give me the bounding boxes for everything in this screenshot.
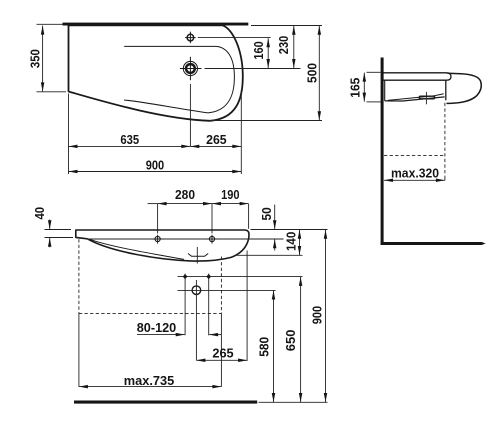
bolt dots axis (front) xyxy=(178,276,303,278)
svg-text:500: 500 xyxy=(304,63,319,83)
dimension 580 (front) xyxy=(257,291,274,403)
inner lip line (front) xyxy=(88,239,184,260)
trap zone right extension (front) xyxy=(220,313,222,386)
svg-text:165: 165 xyxy=(348,78,363,98)
svg-text:350: 350 xyxy=(27,49,42,68)
dashed trap zone left (front) xyxy=(78,239,80,313)
dimension 265 (plan) xyxy=(190,132,241,147)
drain trap mark (front) xyxy=(188,247,208,264)
svg-text:max.320: max.320 xyxy=(391,165,439,180)
svg-text:230: 230 xyxy=(276,36,291,54)
dimension 230 (plan right) xyxy=(276,26,294,68)
svg-text:635: 635 xyxy=(120,132,139,147)
bolt dot left (front) xyxy=(183,274,188,336)
basin inner outline (plan) xyxy=(124,46,234,113)
rim top extension right (front) xyxy=(251,229,328,231)
bolt dot right (front) xyxy=(206,274,211,336)
svg-text:265: 265 xyxy=(206,132,227,147)
bowl interior line (side) xyxy=(388,94,444,101)
svg-text:265: 265 xyxy=(212,346,233,361)
basin outer outline (plan) xyxy=(69,25,243,120)
dashed depth line (side) xyxy=(444,103,446,177)
outer bulge (side) xyxy=(447,73,482,103)
drain axis (side) xyxy=(425,92,427,104)
svg-text:160: 160 xyxy=(251,41,266,59)
svg-text:80-120: 80-120 xyxy=(137,320,177,335)
dimension 160 (plan right) xyxy=(251,38,268,68)
dashed horizontal (side) xyxy=(384,155,445,157)
floor bar (front) xyxy=(74,401,257,404)
fixing holes axis (front) xyxy=(86,238,284,240)
dimension 265 (front) xyxy=(196,251,247,361)
svg-text:650: 650 xyxy=(283,330,298,352)
drain slot (side) xyxy=(419,96,435,99)
bowl underside (side) xyxy=(385,97,445,101)
dimension max.320 (side) xyxy=(384,165,445,180)
svg-text:280: 280 xyxy=(175,187,195,202)
bowl front edge (side) xyxy=(445,80,447,100)
extension lines below plan xyxy=(68,94,70,175)
wall bar (side) xyxy=(381,58,384,246)
hole extension lines up (front) xyxy=(157,204,159,234)
top reference extension (plan right) xyxy=(251,25,322,27)
dashed trap zone bottom (front) xyxy=(79,312,222,314)
svg-text:900: 900 xyxy=(146,158,164,173)
dimension 140 (front right) xyxy=(283,230,299,255)
drain pipe circle (front) xyxy=(178,280,276,360)
tap hole (plan) xyxy=(180,57,301,147)
floor bar (side) xyxy=(381,242,486,245)
rim slab (side) xyxy=(384,73,452,80)
floor extension line (front) xyxy=(259,401,328,403)
svg-text:40: 40 xyxy=(32,207,47,220)
bowl back edge (side) xyxy=(384,80,386,101)
dimension 80-120 (front) xyxy=(137,320,222,335)
trap zone left extension (front) xyxy=(78,313,80,386)
svg-text:max.735: max.735 xyxy=(124,373,174,388)
svg-text:580: 580 xyxy=(257,337,272,357)
dimension 280 (front) xyxy=(148,187,212,204)
svg-text:900: 900 xyxy=(310,306,325,324)
overflow hole (plan) xyxy=(185,32,271,44)
fixing hole left (front) xyxy=(152,235,164,244)
dimension 500 (plan right) xyxy=(304,26,319,120)
bottom reference extension for 500 xyxy=(209,120,322,122)
dimension 190 (front) xyxy=(212,187,249,204)
dimension 635 (plan) xyxy=(69,132,191,147)
dimension 650 (front) xyxy=(283,277,301,402)
dimension 50 (front right) xyxy=(259,205,275,251)
wall bar (plan) xyxy=(63,23,249,26)
svg-text:50: 50 xyxy=(259,207,274,220)
bottom edge extension (front right) xyxy=(236,254,303,256)
fixing hole right (front) xyxy=(206,235,218,244)
dashed trap zone right (front) xyxy=(220,257,222,314)
dimension 900 (front) xyxy=(310,230,326,402)
svg-text:140: 140 xyxy=(283,232,298,251)
basin outline (front) xyxy=(76,230,249,261)
svg-text:190: 190 xyxy=(221,187,239,202)
dimension 165 (side) xyxy=(348,72,382,102)
dimension max.735 (front) xyxy=(79,373,222,388)
dimension 40 (front left) xyxy=(32,207,73,247)
dimension 350 (plan left) xyxy=(27,24,66,92)
dimension 900 (plan) xyxy=(69,158,242,173)
